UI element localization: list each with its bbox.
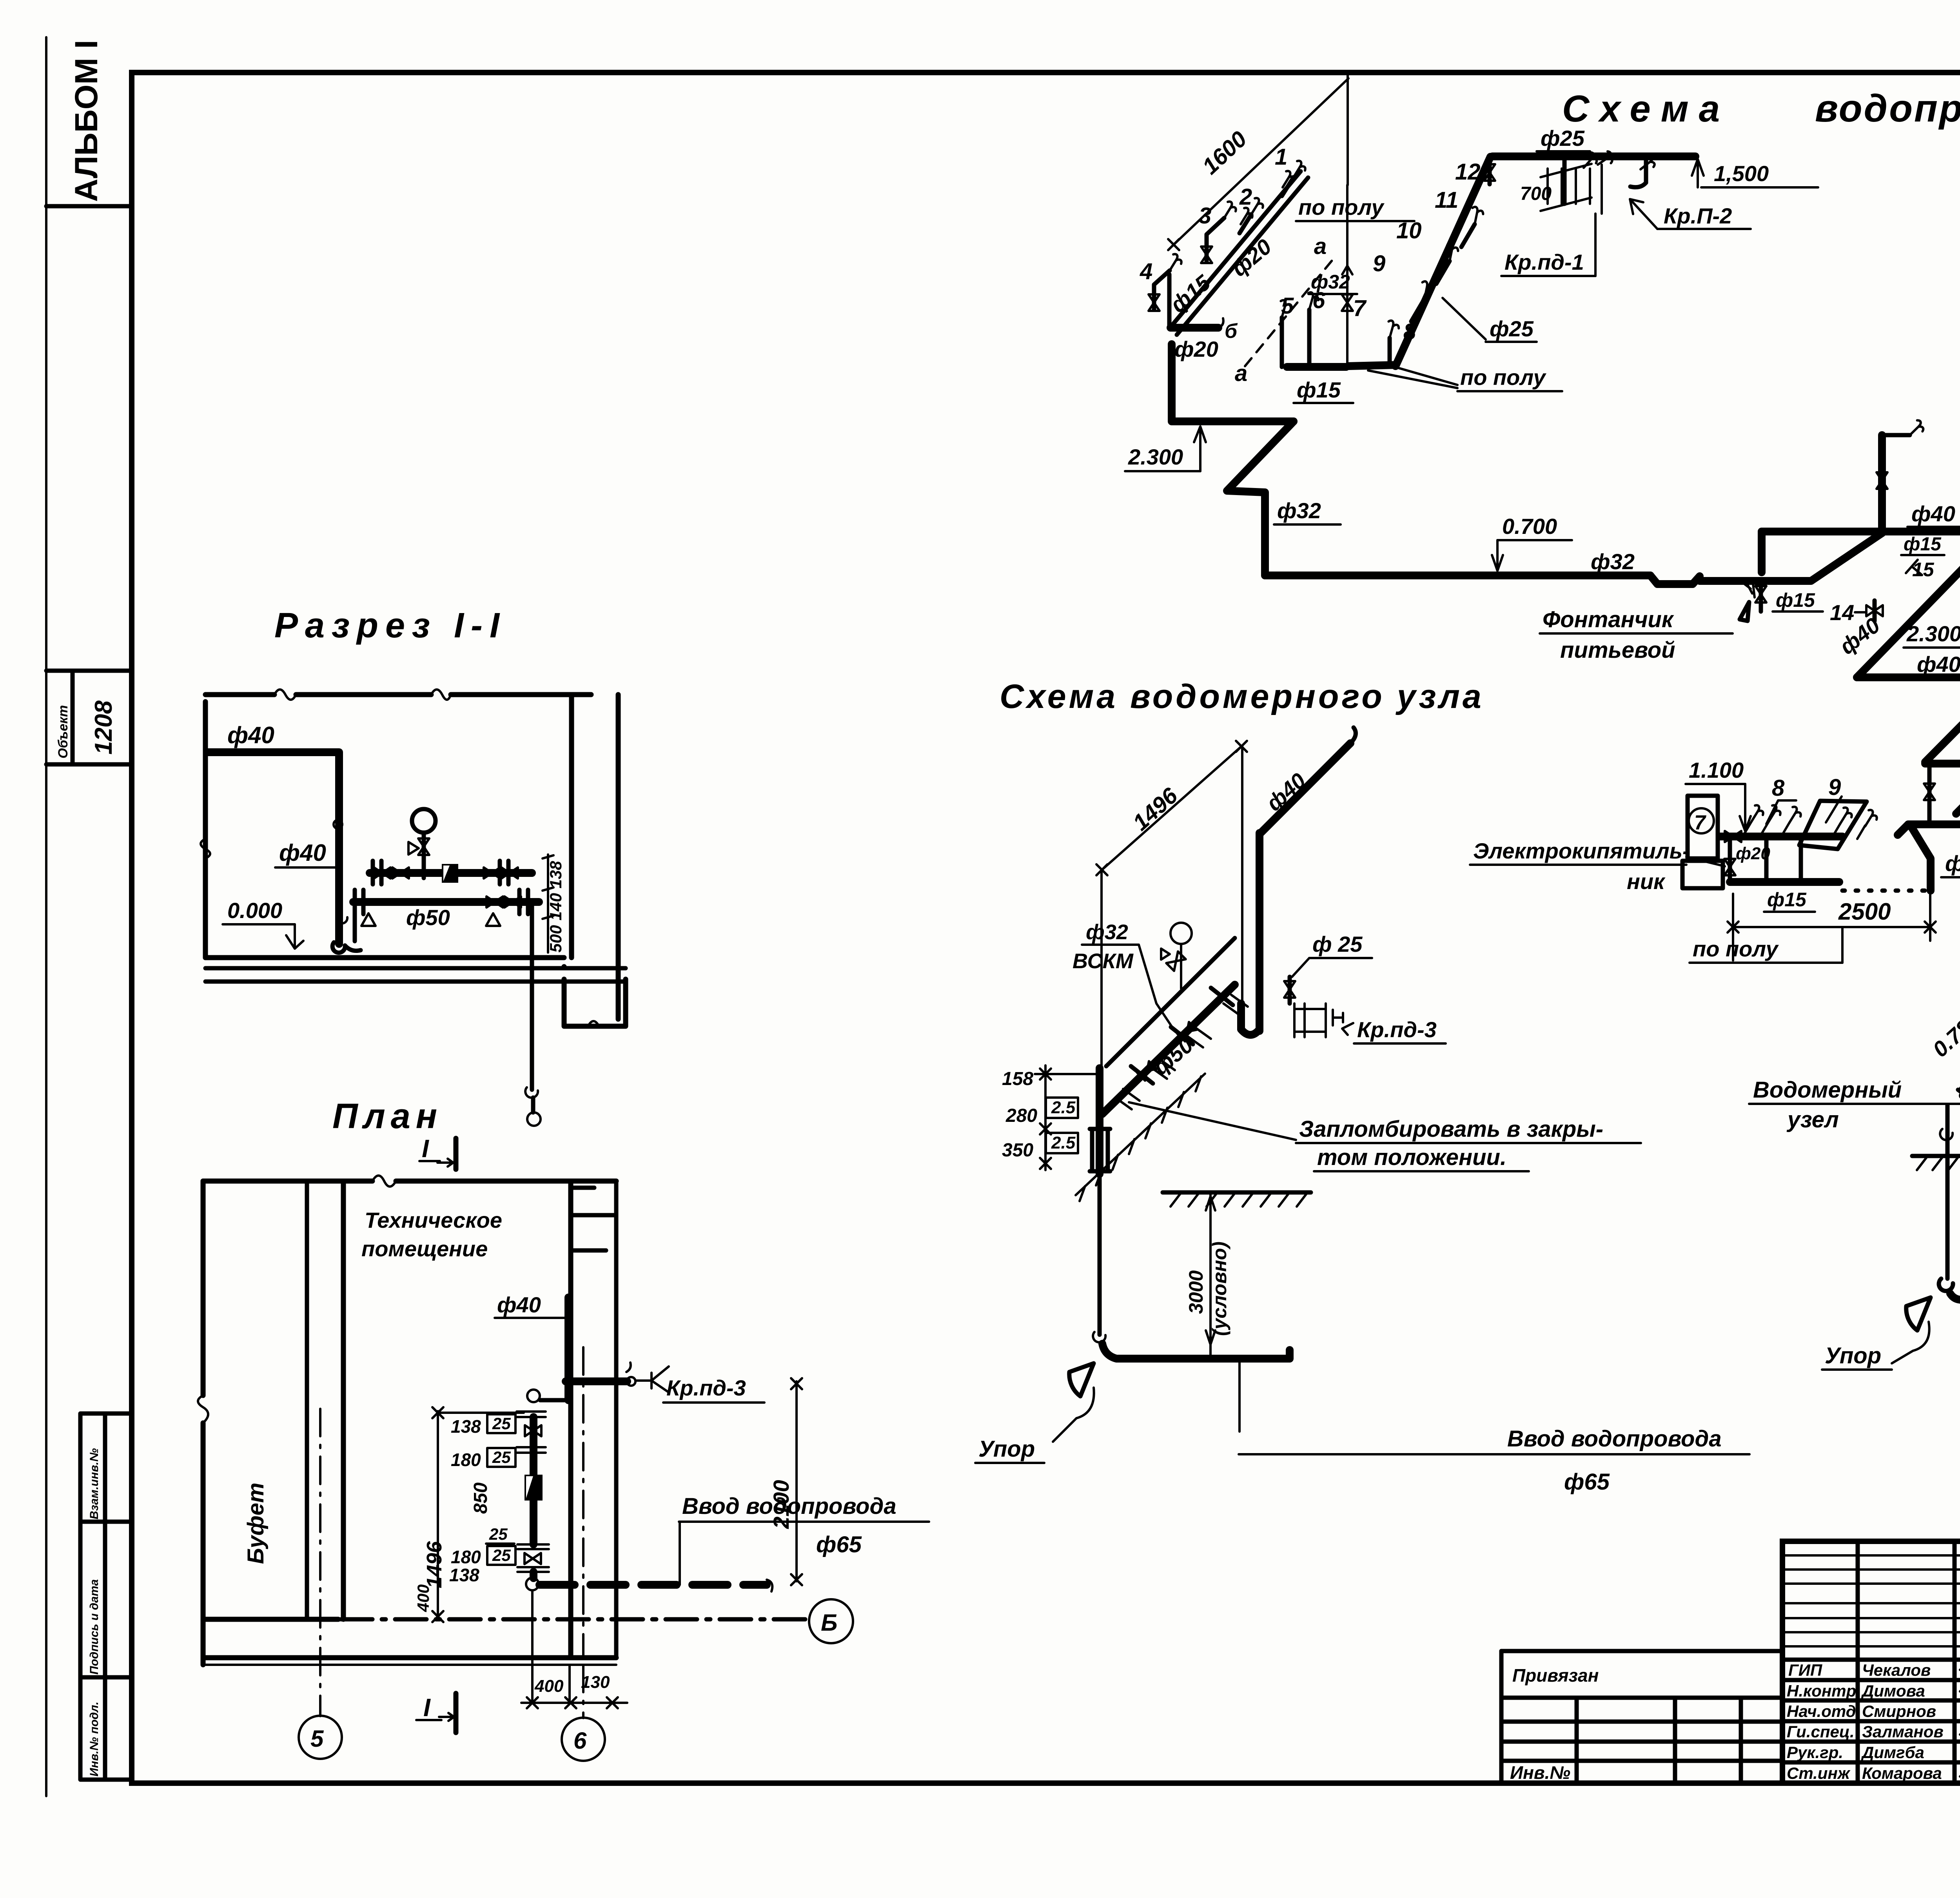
right column — [569, 695, 574, 958]
svg-text:Димова: Димова — [1861, 1682, 1925, 1700]
svg-text:ф25: ф25 — [1490, 316, 1534, 341]
ПРИВЯЗАН TABLE — [1501, 1651, 1782, 1783]
svg-text:11: 11 — [1435, 187, 1458, 213]
svg-text:Запломбировать в закры-: Запломбировать в закры- — [1299, 1116, 1603, 1142]
svg-text:ф40: ф40 — [1917, 652, 1960, 677]
svg-text:5: 5 — [1281, 293, 1294, 319]
flange/valve symbols along diagonal — [1115, 995, 1248, 1109]
svg-text:План: План — [332, 1097, 443, 1136]
svg-text:Ст.инж: Ст.инж — [1787, 1764, 1851, 1782]
svg-text:12: 12 — [1455, 159, 1481, 185]
grid axis Б — [341, 1617, 807, 1622]
Ввод водопровода — [1238, 1359, 1241, 1432]
svg-text:2.5: 2.5 — [1051, 1098, 1076, 1117]
svg-text:Инв.№ подл.: Инв.№ подл. — [88, 1702, 101, 1776]
riser 8 — [1388, 338, 1392, 365]
svg-text:Водомерный: Водомерный — [1753, 1077, 1902, 1103]
right end step + faucet — [1644, 156, 1648, 183]
dashed branch a-a — [1245, 255, 1337, 366]
svg-text:питьевой: питьевой — [1560, 637, 1675, 663]
svg-text:по полу: по полу — [1693, 936, 1779, 961]
svg-text:Схема водомерного узла: Схема водомерного узла — [1000, 678, 1484, 715]
bottom elbow + run — [1102, 1344, 1290, 1359]
floor lines center group — [1287, 363, 1346, 371]
svg-text:ф25: ф25 — [1541, 126, 1585, 151]
riser 1 faucet — [1282, 177, 1294, 196]
svg-text:I: I — [422, 1134, 429, 1163]
room walls — [205, 695, 591, 958]
svg-text:ф15: ф15 — [1904, 534, 1942, 555]
svg-text:Б: Б — [821, 1609, 837, 1636]
filter dark box — [442, 864, 458, 883]
svg-text:а: а — [1235, 361, 1247, 386]
upper pipe — [370, 869, 532, 877]
svg-text:том положении.: том положении. — [1317, 1145, 1506, 1170]
grid axis 6 — [582, 1347, 584, 1718]
svg-text:Нач.отд: Нач.отд — [1787, 1702, 1856, 1720]
svg-text:узел: узел — [1786, 1107, 1839, 1132]
svg-text:180: 180 — [451, 1547, 481, 1567]
svg-text:1,500: 1,500 — [1714, 161, 1769, 186]
right drop with hooks — [530, 902, 534, 1090]
lower unit vertical with flanged valve — [1096, 1068, 1103, 1174]
svg-text:а: а — [1314, 234, 1327, 259]
short run 3 — [1925, 760, 1960, 768]
floor slab — [205, 955, 564, 960]
svg-text:Фонтанчик: Фонтанчик — [1543, 607, 1674, 632]
svg-text:1496: 1496 — [423, 1541, 446, 1588]
verticals below unit — [531, 1590, 534, 1703]
svg-text:5: 5 — [310, 1726, 324, 1752]
svg-text:Чекалов: Чекалов — [1862, 1661, 1931, 1679]
svg-text:10: 10 — [1396, 218, 1422, 243]
bottom run — [1730, 878, 1839, 886]
svg-text:ф20: ф20 — [1945, 851, 1960, 876]
svg-text:1.100: 1.100 — [1689, 758, 1744, 782]
Кр.пд-1 faucet cluster — [1563, 156, 1567, 204]
svg-text:ф40: ф40 — [227, 722, 274, 748]
svg-text:14: 14 — [1830, 600, 1854, 625]
gauge — [412, 809, 436, 833]
svg-text:3: 3 — [1199, 203, 1211, 229]
thin axis vertical — [1241, 746, 1243, 1031]
svg-text:ф20: ф20 — [1227, 234, 1276, 281]
svg-text:280: 280 — [1005, 1105, 1037, 1126]
svg-text:ф15: ф15 — [1297, 377, 1341, 402]
svg-text:Упор: Упор — [978, 1436, 1035, 1462]
svg-text:ник: ник — [1627, 869, 1666, 894]
svg-text:180: 180 — [451, 1450, 481, 1470]
vertical connectors — [1766, 836, 1801, 882]
svg-text:Комарова: Комарова — [1862, 1764, 1942, 1782]
below meter: drop pipe — [1945, 1105, 1950, 1279]
title block outer box — [1782, 1541, 1960, 1783]
svg-text:2.300: 2.300 — [1906, 621, 1960, 646]
svg-text:Ввод водопровода: Ввод водопровода — [1507, 1426, 1722, 1452]
svg-text:ф 25: ф 25 — [1312, 932, 1363, 956]
svg-text:Схема: Схема — [1562, 88, 1730, 130]
right wall with stubs — [568, 1181, 573, 1658]
svg-text:ф15: ф15 — [1767, 889, 1807, 911]
svg-text:6: 6 — [573, 1727, 587, 1754]
svg-text:2.300: 2.300 — [1128, 445, 1183, 469]
risers 5 6 — [1282, 310, 1309, 367]
svg-text:8: 8 — [1772, 775, 1785, 801]
svg-text:25: 25 — [492, 1546, 511, 1564]
svg-text:400: 400 — [414, 1584, 432, 1612]
pipe from fountain up to ф40 level — [1760, 533, 1882, 581]
ф40 run 2 — [1857, 673, 1960, 681]
assembly: lower ф50 pipe — [353, 898, 539, 906]
dimension line 1600 — [1172, 78, 1348, 246]
svg-text:ф50: ф50 — [406, 905, 450, 930]
bottom wall band — [203, 1655, 616, 1660]
dimension column — [437, 1411, 439, 1618]
svg-text:Подпись и дата: Подпись и дата — [88, 1579, 101, 1675]
svg-text:Ги.спец.: Ги.спец. — [1787, 1722, 1855, 1741]
б branch — [1171, 324, 1218, 332]
kettle body — [1688, 796, 1718, 858]
svg-text:(условно): (условно) — [1209, 1241, 1230, 1336]
title block vertical grid — [1856, 1541, 1860, 1783]
svg-text:ВСКМ: ВСКМ — [1073, 949, 1134, 973]
partitions — [305, 1181, 309, 1619]
valves on upper pipe — [374, 867, 390, 878]
ground hatch left — [1912, 1154, 1960, 1158]
svg-text:Смирнов: Смирнов — [1862, 1702, 1936, 1720]
svg-text:ф65: ф65 — [816, 1532, 862, 1557]
svg-text:Привязан: Привязан — [1512, 1665, 1599, 1686]
top horizontal ф25 run — [1492, 152, 1695, 160]
svg-text:1208: 1208 — [90, 700, 117, 755]
riser 2 faucet — [1240, 214, 1251, 233]
svg-text:Буфет: Буфет — [243, 1482, 269, 1564]
left margin: bottom stamp strip — [80, 1414, 132, 1780]
svg-text:25: 25 — [489, 1525, 508, 1543]
svg-text:ф32: ф32 — [1086, 920, 1128, 944]
svg-text:7: 7 — [1353, 296, 1367, 321]
svg-text:1: 1 — [1275, 144, 1287, 170]
thin top-left rows — [1782, 1554, 1960, 1557]
pipe break jog — [1650, 575, 1700, 584]
bottom elbow + run — [1939, 1279, 1953, 1291]
outer thin left edge line — [45, 37, 47, 1796]
branch squiggles 9 10 11 — [1411, 224, 1475, 321]
svg-text:ф65: ф65 — [1564, 1469, 1610, 1495]
svg-text:Кр.пд-1: Кр.пд-1 — [1504, 250, 1584, 274]
left drop connector — [339, 902, 355, 941]
left margin: album strip divider — [46, 204, 132, 209]
ground hatch diagonal — [1076, 1074, 1205, 1201]
svg-text:7: 7 — [1694, 811, 1706, 834]
svg-text:Объект: Объект — [56, 705, 71, 758]
thin axis vertical with valve — [1346, 185, 1348, 368]
svg-text:по полу: по полу — [1298, 195, 1385, 220]
буфет bottom wall — [203, 1617, 338, 1622]
svg-text:158: 158 — [1002, 1069, 1033, 1089]
triangles supports — [361, 913, 500, 926]
ф15 run with valve — [1720, 833, 1842, 840]
svg-text:Рук.гр.: Рук.гр. — [1787, 1743, 1843, 1762]
svg-text:Упор: Упор — [1825, 1343, 1881, 1368]
svg-text:Димгба: Димгба — [1861, 1743, 1924, 1762]
svg-text:ф32: ф32 — [1277, 498, 1321, 523]
ф40 top run — [1758, 532, 1766, 572]
TITLE BLOCK — [1782, 1541, 1960, 1783]
3.200 run — [1908, 820, 1960, 828]
svg-text:ф40: ф40 — [279, 840, 326, 866]
svg-text:350: 350 — [1002, 1140, 1033, 1161]
valves on lower pipe right — [486, 896, 503, 907]
wall band double diagonal — [1169, 171, 1301, 328]
thick vertical — [1256, 833, 1263, 1031]
valve stem down to 3.200 run — [1927, 764, 1932, 823]
svg-text:138: 138 — [449, 1565, 479, 1585]
svg-text:АЛЬБОМ I: АЛЬБОМ I — [69, 40, 104, 202]
svg-text:1600: 1600 — [1198, 126, 1252, 180]
ввод bold dashed pipe — [539, 1581, 767, 1589]
svg-text:25: 25 — [492, 1414, 511, 1433]
svg-text:Залманов: Залманов — [1862, 1722, 1944, 1741]
svg-text:9: 9 — [1373, 251, 1385, 276]
svg-text:б: б — [1225, 320, 1238, 343]
svg-text:2500: 2500 — [1838, 898, 1891, 925]
left margin: object box — [46, 669, 132, 673]
2.300 elbow zigzag — [1227, 421, 1294, 575]
axis thin vertical from frame — [1347, 75, 1349, 185]
svg-text:помещение: помещение — [361, 1236, 488, 1261]
svg-text:138: 138 — [451, 1416, 481, 1437]
svg-text:водопровода.: водопровода. — [1815, 87, 1960, 130]
riser 13 vertical — [1878, 435, 1886, 533]
walls — [203, 1179, 616, 1184]
ф40 riser diagonal with hook — [1261, 743, 1350, 833]
left end drop to floor level — [1898, 824, 1908, 835]
svg-text:ф15: ф15 — [1165, 270, 1215, 317]
2100 dim right — [795, 1381, 798, 1581]
svg-text:Ввод водопровода: Ввод водопровода — [682, 1493, 897, 1519]
svg-text:0.780: 0.780 — [1928, 1007, 1960, 1062]
main diagonal riser ф25 — [1396, 157, 1490, 366]
svg-text:9: 9 — [1828, 775, 1841, 800]
svg-text:ГИП: ГИП — [1788, 1661, 1822, 1679]
diagonal 2 — [1925, 679, 1960, 762]
svg-text:Техническое: Техническое — [365, 1208, 502, 1232]
svg-text:25: 25 — [492, 1448, 511, 1466]
svg-text:2: 2 — [1239, 184, 1252, 210]
riser 4 with valve — [1154, 270, 1170, 310]
upper thin line ВСКМ with gauge — [1106, 938, 1235, 1066]
big diagonal down from 16 — [1857, 516, 1960, 677]
svg-text:Взам.инв.№: Взам.инв.№ — [88, 1448, 101, 1519]
svg-text:3000: 3000 — [1185, 1270, 1207, 1314]
svg-text:0.000: 0.000 — [227, 898, 282, 923]
svg-text:1496: 1496 — [1128, 783, 1183, 836]
long floor run ф32 — [1265, 572, 1650, 579]
svg-text:Электрокипятиль-: Электрокипятиль- — [1473, 838, 1690, 863]
svg-text:6: 6 — [1312, 288, 1325, 313]
flanges — [355, 861, 528, 914]
svg-text:Инв.№: Инв.№ — [1510, 1762, 1570, 1783]
bottom small dims — [521, 1702, 627, 1704]
signer names — [1787, 1661, 1944, 1782]
svg-text:Кр.П-2: Кр.П-2 — [1664, 203, 1732, 228]
svg-text:ф32: ф32 — [1591, 549, 1635, 574]
left drop pipe — [1172, 344, 1294, 421]
svg-text:850: 850 — [470, 1482, 491, 1514]
svg-text:4: 4 — [1140, 259, 1152, 284]
упор wedge — [1906, 1297, 1931, 1330]
2500 dimension — [1733, 926, 1930, 928]
faucets row — [1744, 822, 1865, 839]
fountain — [1755, 586, 1766, 602]
valve below kettle — [1724, 859, 1735, 875]
riser 3 with valve — [1207, 218, 1224, 262]
svg-text:I: I — [423, 1693, 431, 1722]
svg-text:ф40: ф40 — [1911, 501, 1955, 526]
svg-text:0.700: 0.700 — [1502, 514, 1557, 539]
svg-text:700: 700 — [1520, 183, 1552, 204]
Кр.пд-3 branch — [566, 1377, 627, 1385]
svg-text:Н.контр: Н.контр — [1787, 1682, 1856, 1700]
unit vertical — [527, 1390, 540, 1402]
svg-text:Кр.пд-3: Кр.пд-3 — [1357, 1017, 1437, 1042]
svg-text:Разрез I-I: Разрез I-I — [274, 606, 506, 645]
ground hatch horizontal + 3000 dim — [1163, 1190, 1311, 1195]
svg-text:Кр.пд-3: Кр.пд-3 — [666, 1375, 746, 1400]
svg-text:ф40: ф40 — [497, 1292, 541, 1317]
dim line 1496 — [1102, 746, 1241, 870]
svg-text:ф15: ф15 — [1776, 589, 1815, 611]
svg-text:130: 130 — [581, 1673, 610, 1692]
svg-text:400: 400 — [534, 1677, 564, 1696]
circled 7 — [1689, 808, 1714, 833]
упор wedge — [1069, 1363, 1094, 1396]
svg-text:500 140 138: 500 140 138 — [546, 861, 565, 953]
ф40 pipe — [207, 752, 339, 944]
signer rows — [1782, 1658, 1960, 1662]
grid axis 5 — [319, 1409, 321, 1716]
dotted connection to kettle group — [1842, 889, 1926, 893]
main ф50 diagonal assembly — [1102, 985, 1235, 1114]
shelf parallelogram 9 — [1799, 801, 1867, 849]
svg-text:2.5: 2.5 — [1051, 1133, 1076, 1152]
svg-text:по полу: по полу — [1460, 365, 1546, 390]
svg-text:ф20: ф20 — [1174, 337, 1218, 361]
